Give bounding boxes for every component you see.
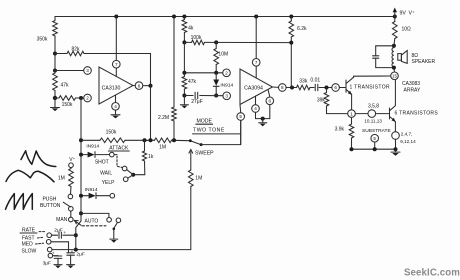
node rail row140 xyxy=(79,138,83,142)
svg-text:IN914: IN914 xyxy=(86,144,99,150)
resistor 1M push xyxy=(69,169,74,187)
svg-text:82k: 82k xyxy=(71,46,80,52)
ground left xyxy=(51,107,60,109)
node rail man-auto xyxy=(79,211,83,215)
resistor 82k xyxy=(67,51,84,56)
wire 4k junction down to pin2 row xyxy=(183,42,185,72)
switch pole2 arm xyxy=(114,222,118,228)
svg-text:IN914: IN914 xyxy=(85,187,98,193)
svg-text:3,5,8: 3,5,8 xyxy=(368,104,379,110)
wire pole2 gnd stem xyxy=(113,228,115,238)
wire U2 gnd stem xyxy=(262,119,264,123)
svg-text:1M: 1M xyxy=(58,175,65,181)
svg-text:6.2k: 6.2k xyxy=(297,26,307,32)
svg-text:6: 6 xyxy=(138,83,141,88)
svg-text:2μF: 2μF xyxy=(54,227,62,233)
wire row140 right xyxy=(172,139,191,141)
resistor 150k row140 xyxy=(100,138,125,143)
svg-text:+: + xyxy=(63,230,66,235)
svg-text:SLOW: SLOW xyxy=(22,248,37,254)
node U1 out row140 xyxy=(149,138,153,142)
svg-text:39k: 39k xyxy=(317,97,326,103)
resistor 1M sweep xyxy=(189,170,194,187)
wire pin6 to base Q1 xyxy=(340,87,347,89)
node bottom rail caps xyxy=(74,233,78,237)
wire 1M push bottom xyxy=(70,187,73,195)
node wail yelp junction xyxy=(131,173,135,177)
svg-text:2,4,7,: 2,4,7, xyxy=(401,131,413,136)
wire fast row xyxy=(52,234,58,236)
svg-text:SUBSTRATE: SUBSTRATE xyxy=(362,128,391,134)
diode D2 1N914 vertical xyxy=(215,73,217,79)
capacitor 2uF auto xyxy=(67,252,75,254)
wire pushbutton to MAN xyxy=(70,211,72,217)
speaker LS1 xyxy=(398,54,402,61)
svg-text:V⁺: V⁺ xyxy=(409,11,415,17)
switch mode arm xyxy=(190,141,200,145)
node 39k top xyxy=(325,86,329,90)
contact spare xyxy=(48,253,53,258)
node pin3 row left xyxy=(182,94,186,98)
wire row140 mid xyxy=(125,139,155,141)
op-amp U2 CA3094 triangle xyxy=(240,69,273,105)
svg-text:MODE: MODE xyxy=(196,118,212,124)
svg-text:WAIL: WAIL xyxy=(100,171,112,177)
switch auto arm xyxy=(74,220,81,225)
svg-text:10,11,13: 10,11,13 xyxy=(364,118,382,123)
wire pin6 U2 xyxy=(268,90,270,97)
wire sweep down xyxy=(76,187,191,250)
wire auto gang dashed xyxy=(82,225,106,227)
wire slow row xyxy=(52,249,76,251)
node rail D1 xyxy=(79,153,83,157)
svg-text:1 TRANSISTOR: 1 TRANSISTOR xyxy=(350,84,390,90)
wire emitter pins down xyxy=(395,139,397,149)
svg-text:MAN: MAN xyxy=(56,217,68,223)
svg-text:100k: 100k xyxy=(191,35,202,41)
wire 2.2M branch top xyxy=(173,17,175,108)
svg-text:IN914: IN914 xyxy=(220,83,233,89)
wire array gnd stem xyxy=(395,149,397,151)
wire apex to pin8 xyxy=(273,86,279,88)
svg-text:4: 4 xyxy=(114,104,117,109)
wire 1k leads xyxy=(144,140,146,151)
svg-text:V⁺: V⁺ xyxy=(69,157,75,163)
contact pole2 right xyxy=(116,218,121,223)
pin 7 U1 xyxy=(113,60,121,68)
svg-text:15: 15 xyxy=(392,73,397,78)
contact YELP xyxy=(123,177,128,182)
wire 4k branch xyxy=(183,17,185,20)
svg-text:SHOT: SHOT xyxy=(95,160,109,166)
svg-text:8: 8 xyxy=(281,85,284,90)
wire 6.2k leads xyxy=(290,17,292,22)
svg-text:+: + xyxy=(52,250,55,255)
svg-text:47k: 47k xyxy=(60,82,69,88)
contact MAN xyxy=(69,217,74,222)
node speaker bottom xyxy=(392,66,396,70)
wire 2.2M bottom xyxy=(173,121,175,140)
svg-text:10M: 10M xyxy=(218,52,228,58)
node U2 gnd xyxy=(261,117,265,121)
wire 10ohm leads xyxy=(394,17,396,22)
pin 5 U2 xyxy=(237,113,245,121)
wire attack stub xyxy=(114,154,117,156)
wire pin2 U2 row xyxy=(184,72,222,74)
node rail D3 xyxy=(79,194,83,198)
pin 3 U1 xyxy=(84,67,92,75)
pin 4 U1 xyxy=(112,103,120,111)
wire V+ to 1M xyxy=(70,168,72,169)
resistor 1k xyxy=(142,151,146,161)
svg-text:1M: 1M xyxy=(195,175,202,181)
node 150k ground junction xyxy=(53,96,57,100)
wire left rail xyxy=(80,98,82,221)
wire top supply rail xyxy=(55,16,395,18)
svg-text:CA3083: CA3083 xyxy=(402,81,420,87)
node top rail junctions xyxy=(114,15,118,19)
waveform yelp xyxy=(6,194,33,210)
capacitor 2uF fast xyxy=(58,232,60,238)
wire 47k U2 leads xyxy=(183,73,185,77)
resistor 350k xyxy=(53,21,58,37)
wire U1 output node xyxy=(143,85,151,87)
ground pole2 xyxy=(110,238,118,240)
ground U1 pin4 xyxy=(111,114,120,116)
svg-text:3.9k: 3.9k xyxy=(335,127,345,133)
wire 150k to pin2 xyxy=(55,97,59,99)
node 82k junction xyxy=(53,52,57,56)
wire row140 left xyxy=(81,139,100,141)
transistor Q1 emitter xyxy=(346,89,352,94)
capacitor 0.01 xyxy=(314,84,316,90)
pin 1 Q array xyxy=(348,110,356,118)
contact ATTACK xyxy=(110,152,115,157)
transistor Q2 base bar xyxy=(389,108,391,119)
pin 6 Q array xyxy=(332,84,340,92)
wire ground stem xyxy=(54,98,56,107)
svg-text:9,12,14: 9,12,14 xyxy=(400,139,416,144)
pin 2,4,7,9,12,14 xyxy=(392,132,400,140)
wire pin4 U2 xyxy=(255,96,257,104)
node pin2 row diode xyxy=(214,71,218,75)
pin 2 U2 xyxy=(223,69,231,77)
contact V+ terminal xyxy=(69,163,74,168)
pin 5 substrate xyxy=(371,134,379,142)
svg-text:YELP: YELP xyxy=(102,180,115,186)
node 4k bottom xyxy=(182,40,186,44)
wire U2 gnd row xyxy=(256,118,270,120)
wire rail to bottom xyxy=(76,221,81,250)
pin 4 U2 xyxy=(252,105,260,113)
svg-text:AUTO: AUTO xyxy=(85,219,99,225)
pin 6 U1 output xyxy=(135,82,143,90)
svg-text:33k: 33k xyxy=(299,78,308,84)
svg-text:350k: 350k xyxy=(37,36,48,42)
speaker voice coil xyxy=(392,46,394,68)
svg-text:1: 1 xyxy=(350,111,353,116)
transistor Q2 collector xyxy=(390,80,396,111)
svg-text:27μF: 27μF xyxy=(191,99,203,105)
wire spare to 3uF xyxy=(53,255,58,257)
wire 10M top lead xyxy=(215,42,217,48)
waveform wail xyxy=(6,170,54,182)
resistor 10M xyxy=(214,49,219,65)
wire two tone contact xyxy=(201,121,241,145)
wire 3.9k to rail xyxy=(351,138,353,149)
waveform shot xyxy=(21,151,56,167)
svg-text:2: 2 xyxy=(225,71,228,76)
wire U1 apex to pin6 xyxy=(133,85,135,87)
svg-text:SPEAKER: SPEAKER xyxy=(412,59,436,65)
node 6.2k bottom xyxy=(289,41,293,45)
wire wail link xyxy=(127,170,134,175)
contact SLOW xyxy=(47,247,52,252)
svg-text:ARRAY: ARRAY xyxy=(404,87,422,93)
wire U1 output down xyxy=(150,86,152,141)
wire feedback down xyxy=(290,43,292,88)
resistor 150k input xyxy=(59,96,76,101)
svg-text:2.2M: 2.2M xyxy=(158,115,169,121)
wire fast cap to node xyxy=(63,234,76,236)
ground 3uF xyxy=(54,264,62,266)
wire man-auto to pole2 xyxy=(81,213,109,217)
svg-text:150k: 150k xyxy=(62,102,73,108)
svg-text:SeekIC.com: SeekIC.com xyxy=(404,267,460,278)
ground 2uF auto xyxy=(67,264,75,266)
ground array xyxy=(391,151,400,153)
svg-text:7: 7 xyxy=(255,60,258,65)
wire 39k to pin1 xyxy=(327,106,348,114)
resistor 33k xyxy=(297,85,311,90)
transistor Q1 collector xyxy=(346,76,354,83)
contact D3 xyxy=(110,193,115,198)
contact WAIL xyxy=(122,166,127,171)
wire ground stem 47k U2 xyxy=(183,96,185,105)
svg-text:9V: 9V xyxy=(400,11,407,17)
svg-text:6: 6 xyxy=(269,99,272,104)
resistor 6.2k xyxy=(289,21,294,37)
switch pushbutton arm xyxy=(63,202,70,207)
wire pin5 U2 xyxy=(239,105,242,113)
capacitor 27uF xyxy=(194,92,196,98)
node pin3 row diode xyxy=(214,94,218,98)
svg-text:2: 2 xyxy=(86,96,89,101)
wire yelp link xyxy=(128,175,133,179)
svg-text:6: 6 xyxy=(334,85,337,90)
svg-text:150k: 150k xyxy=(106,130,117,136)
wire 4k to 100k junction xyxy=(183,33,185,43)
wire pin8 to node xyxy=(286,87,296,89)
svg-text:7: 7 xyxy=(115,62,118,67)
wire 3uF gnd xyxy=(57,258,59,264)
wire pin1 to 3.9k xyxy=(351,118,353,125)
capacitor 3uF xyxy=(54,255,62,257)
resistor 47k xyxy=(53,73,58,91)
wire feedback row xyxy=(184,41,191,43)
wire pin3 U2 row xyxy=(184,95,193,97)
svg-text:6 TRANSISTORS: 6 TRANSISTORS xyxy=(395,111,439,117)
resistor 39k xyxy=(324,93,329,107)
svg-text:ATTACK: ATTACK xyxy=(109,145,129,151)
wire 33k to cap xyxy=(310,87,314,89)
svg-text:8Ω: 8Ω xyxy=(412,53,419,59)
svg-text:CA3130: CA3130 xyxy=(102,86,121,92)
svg-text:5: 5 xyxy=(239,114,242,119)
svg-text:5: 5 xyxy=(373,136,376,141)
wire pin7 U1 to rail xyxy=(115,17,117,61)
svg-text:4k: 4k xyxy=(188,26,194,32)
svg-text:4: 4 xyxy=(254,106,257,111)
wire pin5 substrate down xyxy=(374,142,376,149)
contact MED xyxy=(46,240,51,245)
ground 47k U2 xyxy=(180,104,188,106)
svg-text:3: 3 xyxy=(225,94,228,99)
wire cap to node xyxy=(319,87,332,89)
resistor 2.2M xyxy=(172,107,177,121)
wire med row xyxy=(51,242,69,253)
wire junction to 47k xyxy=(54,71,56,74)
svg-text:1k: 1k xyxy=(148,154,154,160)
wire speaker cap branch xyxy=(376,46,394,56)
contact pole2 left xyxy=(107,218,112,223)
node 10M top xyxy=(214,40,218,44)
diode D3 1N914 xyxy=(81,195,88,197)
svg-text:1M: 1M xyxy=(159,145,166,151)
switch sweep contact arrow xyxy=(189,149,193,153)
op-amp U1 CA3130 triangle xyxy=(99,67,133,104)
wire 2uF auto gnd xyxy=(70,255,72,264)
node pin2 rail junction xyxy=(79,96,83,100)
node speaker top xyxy=(392,44,396,48)
wire pin4 U1 xyxy=(115,95,117,102)
contact pushbutton bottom xyxy=(69,207,74,212)
svg-text:PUSH: PUSH xyxy=(42,196,56,202)
resistor 3.9k xyxy=(349,124,354,138)
wire pin7 U2 xyxy=(255,17,257,59)
transistor Q1 base bar xyxy=(345,80,347,92)
node 2.2M bottom xyxy=(172,138,176,142)
wire array ground rail xyxy=(352,148,396,150)
wire pin1 to mid pin xyxy=(355,113,368,115)
pin 15 Q array xyxy=(391,72,399,80)
pin 6 U2 xyxy=(266,97,274,105)
wire 10M bottom lead xyxy=(215,65,217,73)
svg-text:MED: MED xyxy=(22,241,34,247)
svg-text:BUTTON: BUTTON xyxy=(40,203,61,209)
svg-text:10Ω: 10Ω xyxy=(402,26,412,32)
svg-text:47k: 47k xyxy=(188,79,197,85)
wire 47k to ground node xyxy=(54,91,56,99)
wire 350k to junction xyxy=(54,36,56,71)
9V supply arrow xyxy=(394,11,396,17)
wire mid pin to base Q2 xyxy=(376,113,390,115)
svg-text:0.01: 0.01 xyxy=(310,78,320,84)
contact FAST xyxy=(47,233,52,238)
node 1k top xyxy=(143,138,147,142)
svg-text:CA3094: CA3094 xyxy=(244,86,263,92)
wire pin3 lead xyxy=(55,70,84,72)
node U2 output xyxy=(290,86,294,90)
wire attack dashed link xyxy=(117,156,123,168)
pin 3 U2 xyxy=(223,92,231,100)
wire 82k feedback xyxy=(55,53,67,55)
wire 39k top lead xyxy=(326,88,328,93)
capacitor speaker bypass xyxy=(373,55,379,57)
node pin3 junction xyxy=(53,69,57,73)
pin 7 U2 xyxy=(252,59,260,67)
resistor 47k U2 xyxy=(182,77,187,90)
wire pin15 up xyxy=(393,68,396,72)
pin 3,5,8 circle xyxy=(368,110,376,118)
diode D1 1N914 xyxy=(81,154,87,156)
transistor Q2 emitter xyxy=(390,116,396,121)
ground U2 xyxy=(259,122,267,124)
resistor 4k xyxy=(182,20,187,33)
node pin2 row left xyxy=(182,71,186,75)
svg-text:SWEEP: SWEEP xyxy=(195,151,214,157)
pin 2 U1 xyxy=(84,94,92,102)
svg-text:3: 3 xyxy=(86,68,89,73)
wire left rail top xyxy=(54,17,56,21)
svg-text:RATE: RATE xyxy=(22,227,36,233)
node U1 output xyxy=(149,84,153,88)
pin 8 U2 output xyxy=(279,84,287,92)
node array rail xyxy=(350,147,354,151)
svg-text:3μF: 3μF xyxy=(43,261,51,267)
resistor 100k xyxy=(192,40,205,45)
contact pushbutton top xyxy=(68,194,73,199)
svg-text:TWO TONE: TWO TONE xyxy=(193,128,225,134)
resistor 10 ohm xyxy=(393,22,398,39)
svg-text:2μF: 2μF xyxy=(76,251,84,257)
resistor 1M row140 xyxy=(155,138,172,143)
